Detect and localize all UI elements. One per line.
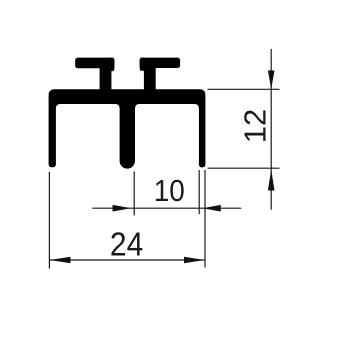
right T-tab cap	[140, 58, 180, 68]
svg-text:10: 10	[154, 173, 185, 208]
dimension 10: left arrow (points right)	[113, 205, 132, 212]
profile body (bar + three legs)	[49, 89, 206, 168]
left T-tab stem	[100, 60, 112, 92]
dimension 12: dimension line	[270, 49, 272, 210]
dimension 12: bottom extension line	[208, 167, 280, 169]
dimension 10: dimension line	[92, 207, 241, 209]
dimension 12: lower arrow (points up)	[268, 170, 275, 191]
right T-tab lip	[140, 58, 146, 71]
right T-tab stem	[144, 60, 156, 92]
left T-tab lip	[109, 58, 115, 72]
dimension 10: right extension line	[198, 170, 200, 214]
dimension 12: upper arrow (points down)	[268, 71, 275, 90]
dimension 24: left extension line	[48, 172, 50, 269]
dimension 24: dimension line	[49, 259, 205, 261]
dimension 24: right arrow (points right)	[184, 257, 205, 264]
left T-tab cap	[75, 58, 114, 69]
dimension 24: right extension line	[204, 170, 206, 268]
dimension 24: left arrow (points left)	[50, 257, 71, 264]
dimension 12: top extension line	[208, 88, 280, 90]
dimension 10: right arrow (points left)	[202, 205, 220, 212]
svg-text:24: 24	[110, 226, 143, 263]
dimension 10: left extension line	[133, 172, 135, 216]
svg-text:12: 12	[237, 109, 272, 143]
